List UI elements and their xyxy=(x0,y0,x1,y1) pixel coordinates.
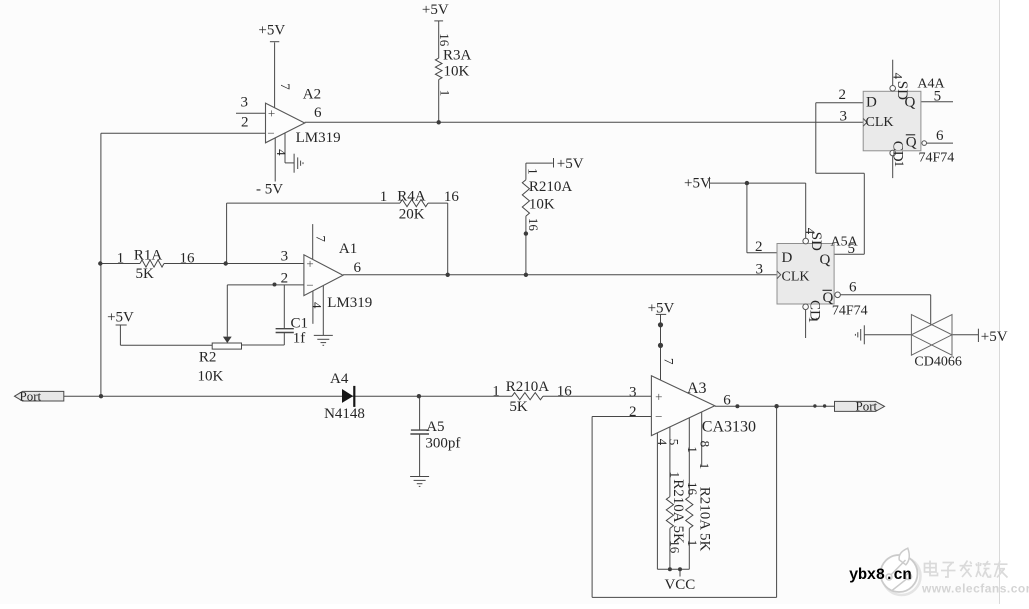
svg-text:−: − xyxy=(267,126,274,141)
svg-text:3: 3 xyxy=(840,109,848,125)
svg-text:4: 4 xyxy=(309,302,324,309)
svg-text:2: 2 xyxy=(629,404,637,420)
svg-text:1: 1 xyxy=(892,161,907,168)
svg-text:1: 1 xyxy=(667,471,682,478)
svg-text:R210A: R210A xyxy=(506,379,550,395)
svg-text:+5V: +5V xyxy=(422,2,449,18)
svg-text:10K: 10K xyxy=(529,197,555,213)
svg-text:5: 5 xyxy=(848,241,856,257)
svg-text:N4148: N4148 xyxy=(324,406,365,422)
svg-text:3: 3 xyxy=(281,249,289,265)
svg-text:+5V: +5V xyxy=(981,329,1008,345)
svg-text:74F74: 74F74 xyxy=(919,151,955,166)
svg-text:1: 1 xyxy=(437,90,452,97)
svg-text:2: 2 xyxy=(839,87,847,103)
svg-text:SD: SD xyxy=(808,232,824,251)
svg-text:CD: CD xyxy=(890,141,906,162)
svg-text:+: + xyxy=(306,256,313,271)
svg-text:R4A: R4A xyxy=(397,189,426,205)
svg-text:R3A: R3A xyxy=(443,48,472,64)
svg-text:6: 6 xyxy=(723,392,731,408)
svg-text:10K: 10K xyxy=(198,369,224,385)
svg-text:CLK: CLK xyxy=(866,115,894,130)
svg-text:A3: A3 xyxy=(687,380,707,397)
svg-text:20K: 20K xyxy=(399,207,425,223)
svg-text:7: 7 xyxy=(314,235,329,242)
svg-text:10K: 10K xyxy=(444,64,470,80)
svg-text:+: + xyxy=(655,389,662,404)
svg-text:74F74: 74F74 xyxy=(832,304,868,319)
svg-text:1: 1 xyxy=(525,168,540,175)
svg-text:SD: SD xyxy=(894,81,910,100)
svg-text:1f: 1f xyxy=(293,331,306,347)
svg-text:+5V: +5V xyxy=(684,175,711,191)
svg-text:6: 6 xyxy=(849,280,857,296)
svg-text:R210A 5K: R210A 5K xyxy=(670,479,686,544)
svg-text:5K: 5K xyxy=(509,399,528,415)
svg-text:CLK: CLK xyxy=(782,270,810,285)
svg-text:Q: Q xyxy=(820,252,831,268)
svg-text:2: 2 xyxy=(241,115,249,131)
svg-text:6: 6 xyxy=(936,128,944,144)
svg-text:Q: Q xyxy=(906,135,917,151)
svg-text:1: 1 xyxy=(685,446,700,453)
svg-text:D: D xyxy=(866,95,877,111)
svg-text:LM319: LM319 xyxy=(296,130,341,146)
svg-text:6: 6 xyxy=(314,105,322,121)
svg-text:+5V: +5V xyxy=(258,23,285,39)
svg-text:R210A 5K: R210A 5K xyxy=(697,487,713,552)
svg-text:1: 1 xyxy=(806,316,821,323)
svg-text:CD4066: CD4066 xyxy=(914,355,961,370)
svg-text:16: 16 xyxy=(557,384,573,400)
svg-text:−: − xyxy=(306,277,313,292)
svg-text:Port: Port xyxy=(20,388,42,403)
svg-text:A1: A1 xyxy=(339,241,357,257)
svg-text:C1: C1 xyxy=(291,316,309,332)
svg-text:+5V: +5V xyxy=(648,301,675,317)
svg-text:3: 3 xyxy=(756,262,764,278)
svg-text:CA3130: CA3130 xyxy=(702,419,756,436)
svg-text:A4: A4 xyxy=(330,371,349,387)
svg-text:- 5V: - 5V xyxy=(256,182,283,198)
svg-text:R2: R2 xyxy=(199,350,217,366)
svg-text:Port: Port xyxy=(856,398,878,413)
svg-text:1: 1 xyxy=(117,251,125,267)
svg-text:www.elecfans.com: www.elecfans.com xyxy=(921,582,1029,596)
svg-text:+5V: +5V xyxy=(107,310,134,326)
svg-text:A2: A2 xyxy=(303,87,321,103)
svg-text:1: 1 xyxy=(492,384,500,400)
svg-text:16: 16 xyxy=(180,251,196,267)
svg-text:D: D xyxy=(782,250,793,266)
svg-text:5: 5 xyxy=(934,88,942,104)
svg-text:+5V: +5V xyxy=(557,156,584,172)
svg-text:16: 16 xyxy=(526,218,541,232)
svg-text:R210A: R210A xyxy=(529,179,573,195)
svg-text:4: 4 xyxy=(274,149,289,156)
svg-text:1: 1 xyxy=(380,189,388,205)
svg-text:4: 4 xyxy=(891,73,906,80)
svg-text:6: 6 xyxy=(354,260,362,276)
svg-text:LM319: LM319 xyxy=(327,295,372,311)
svg-text:A5: A5 xyxy=(426,419,444,435)
svg-text:ybx8.cn: ybx8.cn xyxy=(849,566,911,584)
svg-text:3: 3 xyxy=(241,95,249,111)
svg-text:+: + xyxy=(268,106,275,121)
svg-text:300pf: 300pf xyxy=(425,436,460,452)
svg-text:5: 5 xyxy=(666,439,681,446)
svg-text:1: 1 xyxy=(697,463,712,470)
svg-text:A4A: A4A xyxy=(917,77,945,92)
svg-text:7: 7 xyxy=(278,83,293,90)
svg-text:2: 2 xyxy=(281,270,289,286)
svg-text:R1A: R1A xyxy=(134,248,163,264)
svg-text:16: 16 xyxy=(437,33,452,47)
svg-text:3: 3 xyxy=(629,385,637,401)
svg-text:2: 2 xyxy=(755,239,763,255)
svg-text:7: 7 xyxy=(662,358,677,365)
svg-text:16: 16 xyxy=(444,189,460,205)
svg-text:VCC: VCC xyxy=(664,577,695,593)
svg-text:5K: 5K xyxy=(136,266,155,282)
svg-text:−: − xyxy=(655,409,662,424)
